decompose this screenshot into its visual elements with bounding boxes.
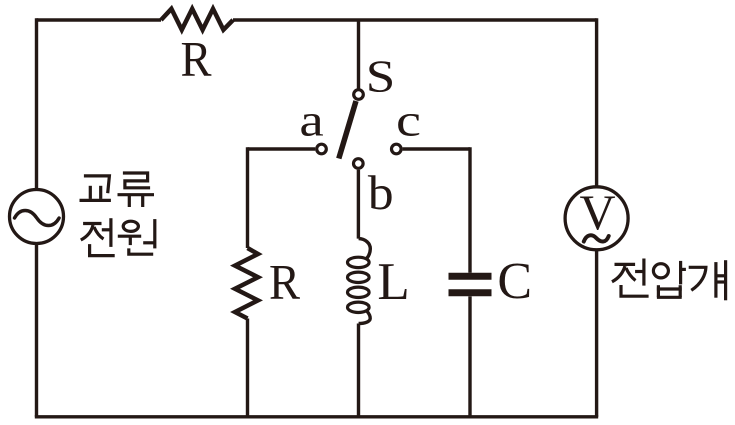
- wire L branch vertical lower: [357, 324, 360, 417]
- AC source circle: [10, 190, 64, 244]
- label voltmeter Korean "전압계" : 압: [653, 261, 686, 297]
- switch lever: [339, 101, 356, 159]
- capacitor C top plate: [449, 273, 492, 280]
- wire right vertical upper: [595, 18, 598, 187]
- AC source sine wave: [15, 211, 60, 226]
- wire C branch vertical upper: [468, 147, 471, 272]
- wire top horizontal right segment: [233, 18, 597, 21]
- svg-text:c: c: [396, 97, 421, 146]
- svg-text:S: S: [366, 51, 396, 101]
- switch S top contact circle: [354, 90, 364, 100]
- label AC source Korean line1 "교류" : 교: [80, 176, 111, 201]
- wire from a to R branch: [248, 147, 316, 150]
- wire from c to C branch: [403, 147, 470, 150]
- voltmeter circle: [565, 187, 628, 250]
- svg-text:C: C: [497, 253, 532, 310]
- svg-text:b: b: [368, 165, 394, 220]
- label voltmeter Korean "전압계" : 전: [612, 259, 649, 297]
- svg-text:R: R: [180, 32, 212, 87]
- resistor R1 (top) zigzag: [161, 9, 233, 30]
- wire bottom horizontal: [35, 415, 598, 418]
- resistor R2 (branch) zigzag: [235, 248, 258, 319]
- inductor L exit arc: [359, 311, 371, 324]
- wire right vertical lower: [595, 250, 598, 417]
- svg-text:L: L: [377, 253, 409, 311]
- wire left vertical upper: [35, 18, 38, 189]
- wire switch stem from top: [357, 20, 360, 89]
- wire R branch vertical lower: [246, 319, 249, 417]
- wire left vertical lower: [35, 244, 38, 417]
- label AC source Korean line2 "전원" : 전: [81, 218, 115, 255]
- inductor L entry arc: [359, 239, 371, 259]
- capacitor C bottom plate: [449, 289, 492, 296]
- wire C branch vertical lower: [468, 296, 471, 416]
- switch contact a circle: [317, 144, 327, 154]
- label AC source Korean line2 "전원" : 원: [118, 219, 155, 254]
- svg-text:V: V: [579, 184, 615, 240]
- label AC source Korean line1 "교류" : 류: [118, 173, 155, 207]
- wire from b down to L branch: [357, 170, 360, 239]
- svg-text:a: a: [299, 95, 323, 145]
- svg-text:R: R: [269, 255, 301, 310]
- inductor L loop 1: [348, 257, 370, 267]
- switch contact c circle: [392, 144, 402, 154]
- voltmeter tilde: [584, 235, 609, 241]
- label voltmeter Korean "전압계" : 계: [689, 260, 726, 300]
- wire top horizontal left segment: [37, 18, 162, 21]
- inductor L loop 3: [348, 287, 370, 297]
- inductor L loop 2: [348, 272, 370, 282]
- inductor L loop 4: [348, 302, 370, 312]
- wire R branch vertical upper: [248, 149, 250, 248]
- switch contact b circle: [354, 159, 364, 169]
